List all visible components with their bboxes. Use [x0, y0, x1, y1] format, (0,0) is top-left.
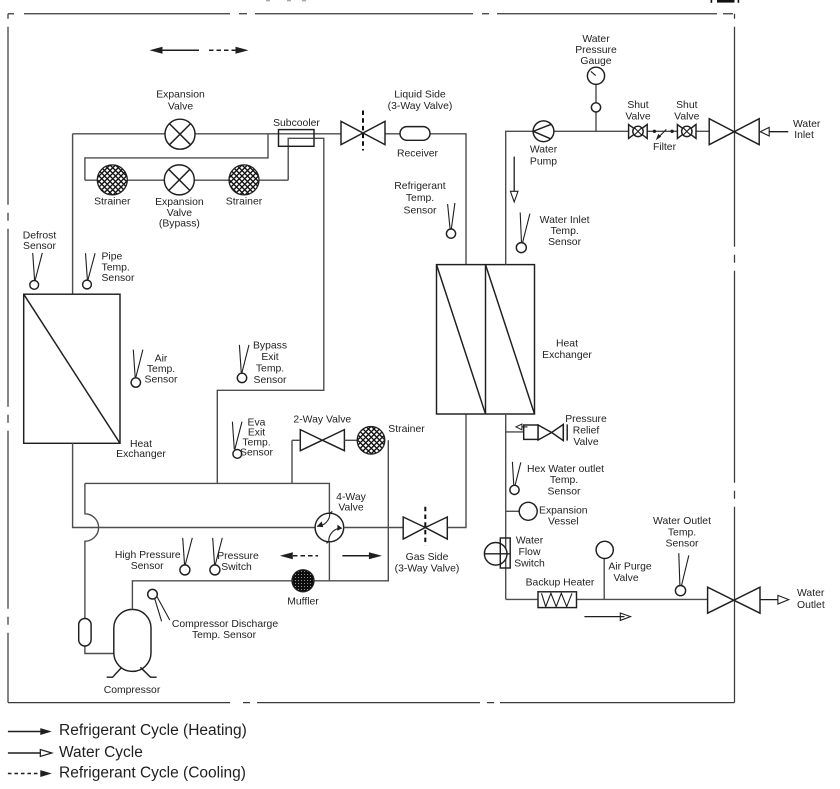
svg-text:Valve: Valve	[573, 437, 598, 448]
svg-text:Pressure: Pressure	[575, 45, 617, 56]
svg-text:Muffler: Muffler	[287, 597, 319, 608]
svg-text:Water: Water	[582, 34, 610, 45]
subcooler	[279, 130, 315, 147]
label water outlet	[797, 588, 825, 611]
air temp sensor	[131, 350, 143, 388]
label hex water outlet temp sensor	[527, 464, 604, 497]
shut valve 2	[677, 125, 696, 139]
svg-text:Gas Side: Gas Side	[406, 552, 449, 563]
svg-text:Strainer: Strainer	[388, 424, 425, 435]
svg-text:Sensor: Sensor	[404, 205, 437, 216]
svg-text:Sensor: Sensor	[548, 237, 581, 248]
water inlet arrow	[760, 127, 788, 136]
svg-text:Water: Water	[530, 145, 558, 156]
svg-text:Temp.: Temp.	[256, 363, 284, 374]
label high pressure sensor	[115, 550, 181, 572]
wire: water main top line	[506, 131, 710, 264]
label pressure relief valve	[565, 414, 607, 448]
unit boundary dashed border top	[8, 13, 735, 15]
svg-text:Water: Water	[516, 536, 544, 547]
svg-text:Shut: Shut	[627, 100, 648, 111]
heating flow arrow (solid, middle)	[342, 552, 382, 559]
svg-text:Temp.: Temp.	[147, 364, 175, 375]
svg-text:Flow: Flow	[519, 547, 541, 558]
svg-text:Defrost: Defrost	[23, 230, 57, 241]
wire: receiver to valve	[385, 133, 400, 135]
unit boundary dashed border left	[7, 14, 9, 703]
svg-text:2-Way Valve: 2-Way Valve	[293, 414, 351, 425]
expansion vessel	[506, 502, 538, 520]
legend heating arrow	[8, 728, 52, 735]
legend cooling arrow	[8, 770, 52, 777]
label heat exchanger right	[542, 339, 592, 362]
svg-text:Subcooler: Subcooler	[273, 118, 320, 129]
wire: bypass row through strainers	[85, 179, 288, 181]
label gas side	[395, 552, 460, 575]
strainer S2	[229, 165, 259, 195]
wire: 2-way valve to strainer	[344, 439, 357, 441]
svg-text:Sensor: Sensor	[23, 241, 56, 252]
water cycle flow arrow (bottom)	[584, 613, 630, 620]
shut valve 1	[629, 125, 648, 139]
2-way valve	[300, 430, 344, 451]
svg-text:Air: Air	[155, 354, 168, 365]
cropped icon top right	[266, 0, 739, 3]
muffler	[292, 570, 314, 592]
svg-text:Temp.: Temp.	[550, 226, 578, 237]
label expansion valve bypass	[155, 197, 204, 230]
filter	[653, 129, 674, 140]
bypass exit temp sensor	[237, 345, 249, 383]
svg-text:Valve: Valve	[338, 503, 363, 514]
refrigerant temp sensor	[446, 203, 455, 238]
receiver	[400, 127, 430, 141]
label water outlet temp sensor	[653, 516, 711, 550]
label compressor discharge temp sensor	[172, 619, 278, 641]
water pump	[533, 121, 554, 142]
label bypass exit temp sensor	[253, 340, 287, 386]
unit boundary dashed border bottom	[8, 702, 735, 704]
label shut valve 2	[674, 100, 699, 122]
svg-text:Compressor: Compressor	[104, 685, 161, 696]
svg-text:Expansion: Expansion	[156, 90, 205, 101]
svg-text:Relief: Relief	[573, 426, 600, 437]
air heat exchanger (left)	[24, 294, 120, 443]
strainer S1	[97, 165, 127, 195]
svg-text:Expansion: Expansion	[155, 197, 204, 208]
label air purge valve	[608, 562, 652, 584]
defrost sensor	[30, 253, 42, 289]
svg-text:Water Outlet: Water Outlet	[653, 516, 711, 527]
svg-text:Heat: Heat	[556, 339, 578, 350]
svg-text:Exchanger: Exchanger	[542, 350, 592, 361]
wire: suction header	[85, 483, 330, 513]
svg-text:Sensor: Sensor	[131, 561, 164, 572]
water heat exchanger (right)	[437, 265, 535, 414]
water inlet temp sensor	[516, 213, 530, 253]
svg-text:Temp.: Temp.	[550, 475, 578, 486]
accumulator	[79, 619, 91, 647]
svg-text:Switch: Switch	[221, 562, 252, 573]
4-way valve	[315, 512, 344, 544]
svg-text:Valve: Valve	[674, 111, 699, 122]
wire: bypass branch from main line	[85, 134, 268, 180]
wire: 4-way valve bottom leg	[328, 542, 330, 581]
label heat exchanger left	[116, 439, 166, 460]
expansion valve EV1	[165, 119, 195, 149]
svg-text:Sensor: Sensor	[666, 539, 699, 550]
legend water arrow	[8, 750, 52, 757]
label pressure switch	[217, 551, 259, 573]
label liquid side	[388, 90, 453, 113]
svg-text:Pipe: Pipe	[102, 252, 123, 263]
label refrigerant temp sensor	[394, 181, 446, 216]
expansion valve EV2 (bypass)	[164, 165, 194, 195]
svg-text:Valve: Valve	[167, 208, 192, 219]
wire: bottom water outlet line	[506, 598, 708, 600]
cooling direction arrow dashed (top left)	[209, 47, 249, 54]
svg-text:Filter: Filter	[653, 142, 677, 153]
svg-text:Sensor: Sensor	[548, 486, 581, 497]
wire: discharge riser and muffler line	[132, 440, 388, 609]
label water inlet	[793, 119, 821, 141]
svg-text:Sensor: Sensor	[240, 447, 273, 458]
pipe temp sensor	[83, 253, 96, 289]
wire: left riser down to air heat exchanger	[72, 134, 74, 294]
label water pump	[530, 145, 558, 168]
svg-text:Hex Water outlet: Hex Water outlet	[527, 464, 604, 475]
svg-text:Vessel: Vessel	[548, 517, 579, 528]
pressure switch	[210, 538, 222, 575]
svg-text:Strainer: Strainer	[226, 197, 263, 208]
svg-text:Valve: Valve	[613, 573, 638, 584]
svg-text:Receiver: Receiver	[397, 149, 439, 160]
svg-text:Pump: Pump	[530, 157, 557, 168]
compressor discharge temp sensor	[148, 589, 170, 621]
svg-text:Switch: Switch	[514, 559, 545, 570]
wire: 2-way valve left stub	[292, 439, 300, 441]
label expansion valve	[156, 90, 205, 113]
water flow down arrow	[510, 157, 518, 202]
gas side 3-way valve	[403, 507, 447, 546]
wire: suction line from air HX to 4-way valve	[73, 443, 316, 527]
high pressure sensor	[180, 538, 192, 575]
label water inlet temp sensor	[540, 215, 590, 248]
svg-text:(3-Way Valve): (3-Way Valve)	[388, 101, 453, 112]
water outlet temp sensor	[675, 553, 688, 596]
strainer S3	[357, 427, 385, 455]
svg-text:Refrigerant Cycle (Heating): Refrigerant Cycle (Heating)	[59, 722, 247, 739]
svg-text:Bypass: Bypass	[253, 340, 287, 351]
svg-text:Expansion: Expansion	[539, 505, 588, 516]
svg-text:Sensor: Sensor	[102, 273, 135, 284]
water outlet valve	[708, 587, 760, 613]
svg-text:Water: Water	[793, 119, 821, 130]
label air temp sensor	[145, 354, 178, 386]
wire: water line from HX bottom down	[505, 414, 507, 599]
svg-text:Refrigerant Cycle (Cooling): Refrigerant Cycle (Cooling)	[59, 765, 246, 782]
wire: suction drop with pipe hop and accumulator	[85, 483, 114, 653]
wire: main liquid line top	[73, 133, 341, 135]
svg-text:Temp. Sensor: Temp. Sensor	[192, 630, 257, 641]
svg-text:Sensor: Sensor	[145, 375, 178, 386]
svg-text:Compressor Discharge: Compressor Discharge	[172, 619, 278, 630]
svg-text:Water: Water	[797, 588, 825, 599]
hex water outlet temp sensor	[510, 462, 521, 495]
svg-text:4-Way: 4-Way	[336, 492, 366, 503]
label water flow switch	[514, 536, 545, 570]
cooling flow arrow (dashed, middle)	[280, 552, 318, 559]
svg-text:Water Cycle: Water Cycle	[59, 744, 143, 761]
liquid side 3-way valve	[341, 111, 385, 151]
svg-text:Pressure: Pressure	[565, 414, 607, 425]
label eva exit temp sensor	[240, 417, 273, 458]
heating direction arrow (top left)	[150, 47, 200, 54]
svg-text:Temp.: Temp.	[102, 262, 130, 273]
compressor	[107, 609, 157, 677]
wire: gas side valve to water heat exchanger	[447, 414, 466, 528]
wire: receiver to corner and down to heat exchanger	[430, 134, 466, 265]
svg-text:Exchanger: Exchanger	[116, 449, 166, 460]
unit boundary dashed border right	[734, 14, 736, 703]
wire: 4-way valve to gas side valve	[344, 527, 404, 529]
water outlet arrow	[760, 595, 789, 604]
svg-text:Valve: Valve	[625, 111, 650, 122]
svg-text:Pressure: Pressure	[217, 551, 259, 562]
svg-text:(3-Way Valve): (3-Way Valve)	[395, 564, 460, 575]
svg-text:Temp.: Temp.	[668, 527, 696, 538]
svg-text:Temp.: Temp.	[406, 193, 434, 204]
svg-text:Backup Heater: Backup Heater	[526, 578, 595, 589]
svg-text:Valve: Valve	[168, 102, 193, 113]
water flow switch	[484, 538, 510, 568]
svg-text:(Bypass): (Bypass)	[159, 219, 200, 230]
label 4-way valve	[336, 492, 366, 514]
label pipe temp sensor	[102, 252, 135, 285]
svg-text:Refrigerant: Refrigerant	[394, 181, 446, 192]
label defrost sensor	[23, 230, 57, 251]
svg-text:High Pressure: High Pressure	[115, 550, 181, 561]
svg-text:Sensor: Sensor	[254, 375, 287, 386]
svg-text:Gauge: Gauge	[580, 56, 611, 67]
air purge valve	[596, 541, 613, 599]
wire: subcooler coil up-across-down to bypass exit	[217, 138, 323, 483]
label shut valve 1	[625, 100, 650, 122]
label water pressure gauge	[575, 34, 617, 67]
pressure relief valve	[506, 424, 568, 441]
svg-text:Exit: Exit	[261, 352, 278, 363]
svg-text:Outlet: Outlet	[797, 600, 825, 611]
svg-text:Air Purge: Air Purge	[608, 562, 652, 573]
svg-text:Strainer: Strainer	[94, 197, 131, 208]
svg-text:Inlet: Inlet	[794, 130, 814, 141]
svg-text:Liquid Side: Liquid Side	[394, 90, 446, 101]
svg-text:Water Inlet: Water Inlet	[540, 215, 590, 226]
eva exit temp sensor	[232, 422, 242, 459]
backup heater	[538, 592, 577, 608]
svg-text:Shut: Shut	[676, 100, 697, 111]
label expansion vessel	[539, 505, 588, 527]
wire: 2-way valve branch down	[291, 440, 293, 483]
water inlet valve	[709, 119, 759, 145]
water pressure gauge	[587, 67, 604, 131]
